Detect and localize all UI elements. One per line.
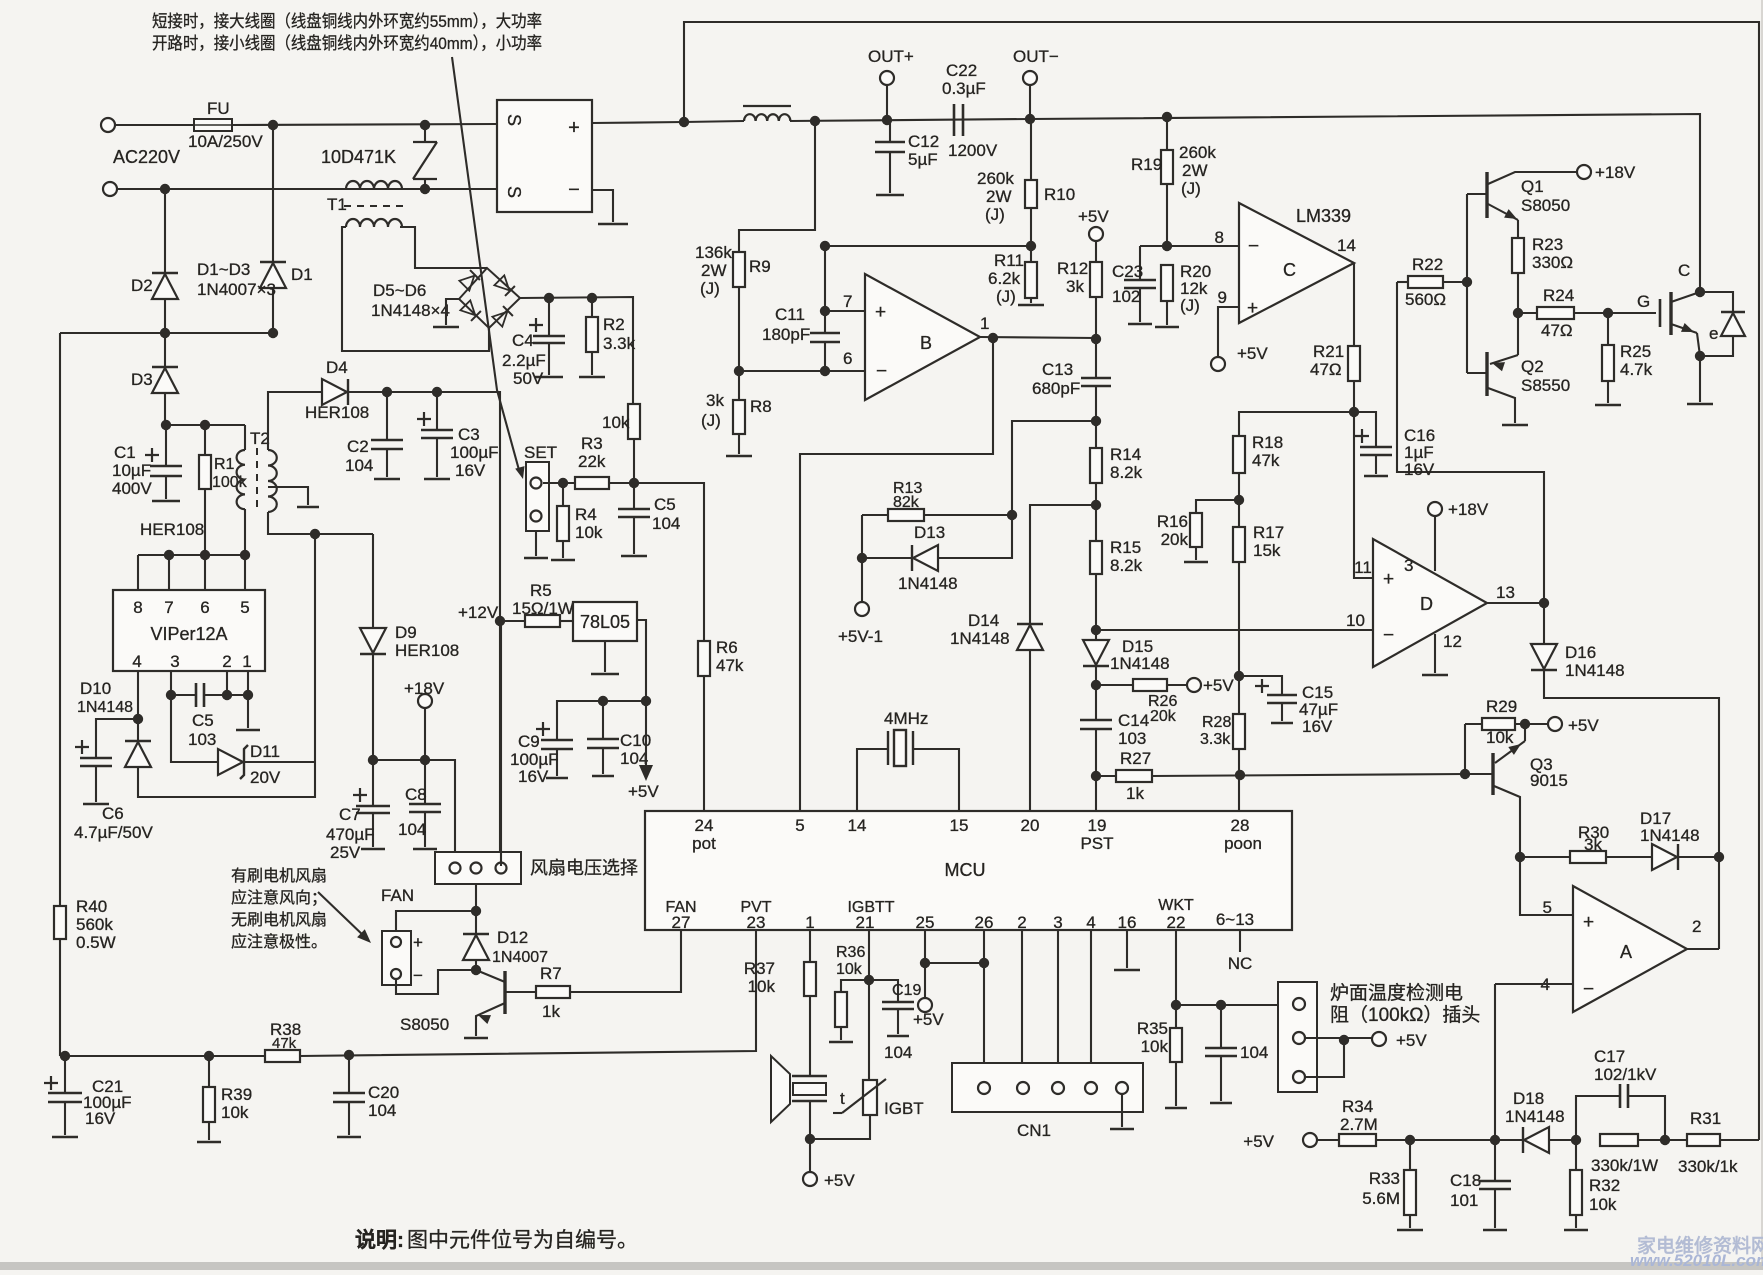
svg-text:+5V: +5V xyxy=(1078,207,1109,226)
svg-text:C20: C20 xyxy=(368,1083,399,1102)
svg-text:C8: C8 xyxy=(405,785,427,804)
svg-text:82k: 82k xyxy=(893,494,920,511)
wire xyxy=(500,621,502,866)
svg-text:开路时，接小线圈（线盘铜线内外环宽约40mm），小功率: 开路时，接小线圈（线盘铜线内外环宽约40mm），小功率 xyxy=(152,34,542,53)
wire viper top rail xyxy=(165,424,245,426)
svg-text:C5: C5 xyxy=(654,495,676,514)
svg-text:Q2: Q2 xyxy=(1521,357,1544,376)
wire xyxy=(164,393,166,425)
resistor xyxy=(1090,541,1102,574)
wire pin 6-13 NC stub xyxy=(1239,930,1241,952)
terminal xyxy=(450,863,461,874)
node C11 bottom xyxy=(820,366,830,376)
svg-text:S8050: S8050 xyxy=(400,1015,449,1034)
wire xyxy=(1238,676,1240,714)
svg-text:−: − xyxy=(1383,625,1394,646)
svg-text:D18: D18 xyxy=(1513,1089,1544,1108)
terminal xyxy=(391,937,401,947)
wire xyxy=(1494,1189,1496,1228)
svg-text:D3: D3 xyxy=(131,370,153,389)
wire xyxy=(1607,381,1609,403)
svg-text:C1: C1 xyxy=(114,443,136,462)
wire xyxy=(1524,724,1526,741)
wire xyxy=(925,962,984,964)
svg-text:R32: R32 xyxy=(1589,1176,1620,1195)
wire choke to OUT- node xyxy=(790,119,1030,121)
svg-text:10A/250V: 10A/250V xyxy=(188,132,263,151)
svg-text:330k/1k: 330k/1k xyxy=(1678,1157,1738,1176)
svg-text:S8050: S8050 xyxy=(1521,196,1570,215)
svg-text:2.2µF: 2.2µF xyxy=(502,351,546,370)
resistor xyxy=(203,1087,215,1122)
svg-text:D11: D11 xyxy=(250,742,280,761)
ground 104 xyxy=(1210,1102,1232,1105)
ground C19 xyxy=(887,1035,909,1038)
diode xyxy=(322,379,347,405)
svg-text:R23: R23 xyxy=(1532,235,1563,254)
node Q1Q2 base xyxy=(1462,277,1472,287)
svg-text:C17: C17 xyxy=(1594,1047,1625,1066)
diode xyxy=(360,628,386,653)
diode xyxy=(125,742,151,767)
wire xyxy=(1575,1215,1577,1228)
node C10 xyxy=(598,696,608,706)
wire xyxy=(204,694,248,696)
svg-text:+: + xyxy=(1247,298,1258,319)
wire xyxy=(204,425,206,455)
svg-text:7: 7 xyxy=(164,598,173,617)
svg-text:+: + xyxy=(1383,569,1394,590)
svg-text:180pF: 180pF xyxy=(762,325,810,344)
terminal xyxy=(1085,1082,1097,1094)
svg-text:3k: 3k xyxy=(1066,277,1084,296)
svg-text:7: 7 xyxy=(843,292,852,311)
wire xyxy=(64,1056,66,1093)
wire xyxy=(1095,666,1097,685)
svg-text:R36: R36 xyxy=(836,944,865,961)
wire temp bottom xyxy=(1305,1038,1344,1077)
wire xyxy=(1139,288,1141,322)
wire xyxy=(244,555,246,590)
capacitor xyxy=(409,804,441,812)
svg-text:R11: R11 xyxy=(994,251,1024,270)
thermistor diagonal xyxy=(842,1079,886,1113)
node R21 bottom xyxy=(1349,407,1359,417)
svg-text:R9: R9 xyxy=(749,257,771,276)
node C11 top xyxy=(820,306,830,316)
svg-text:14: 14 xyxy=(1337,236,1356,255)
diode D3 xyxy=(152,368,178,393)
wire D14 to MCU pin20 xyxy=(1029,650,1031,811)
node N-D2 xyxy=(160,184,170,194)
ground C5b xyxy=(621,555,647,558)
ground C23 xyxy=(1128,323,1152,326)
svg-text:10µF: 10µF xyxy=(112,461,151,480)
svg-text:S8550: S8550 xyxy=(1521,376,1570,395)
inductor winding xyxy=(237,450,245,509)
capacitor xyxy=(810,333,840,342)
svg-text:−: − xyxy=(413,966,423,985)
wire xyxy=(372,534,374,629)
wire xyxy=(1678,856,1719,858)
svg-text:LM339: LM339 xyxy=(1296,206,1351,226)
node C7 xyxy=(368,755,378,765)
ground R33 xyxy=(1397,1229,1423,1232)
svg-text:3: 3 xyxy=(1404,556,1413,575)
wire xyxy=(505,991,536,993)
svg-text:27: 27 xyxy=(672,913,691,932)
wire xyxy=(1720,1139,1759,1141)
svg-text:1N4148: 1N4148 xyxy=(1110,654,1170,673)
resistor R2 body xyxy=(586,317,598,352)
wire xyxy=(245,761,315,763)
wire xyxy=(1095,386,1097,421)
svg-text:20k: 20k xyxy=(1150,708,1177,725)
wire xyxy=(268,392,322,450)
svg-text:3: 3 xyxy=(170,652,179,671)
node OUT- xyxy=(1025,114,1035,124)
wire xyxy=(1544,670,1719,857)
transistor IGBT xyxy=(1659,299,1662,327)
svg-text:R15: R15 xyxy=(1110,538,1141,557)
wire xyxy=(424,760,426,804)
svg-text:1N4148: 1N4148 xyxy=(77,699,133,716)
svg-text:0.5W: 0.5W xyxy=(76,933,116,952)
svg-text:无刷电机风扇: 无刷电机风扇 xyxy=(231,911,327,929)
svg-text:IGBT: IGBT xyxy=(884,1099,924,1118)
svg-text:1N4148: 1N4148 xyxy=(898,574,958,593)
svg-text:FU: FU xyxy=(207,99,230,118)
+5V terminal buzzer xyxy=(803,1172,817,1186)
svg-text:C13: C13 xyxy=(1042,360,1073,379)
diode xyxy=(1524,1127,1549,1153)
resistor xyxy=(1025,262,1037,298)
svg-text:5: 5 xyxy=(795,816,804,835)
ground pin16 xyxy=(1114,969,1140,972)
node D17 right xyxy=(1714,852,1724,862)
resistor xyxy=(698,641,710,676)
svg-text:47k: 47k xyxy=(272,1035,297,1052)
wire xyxy=(868,980,870,1080)
terminal xyxy=(1303,1133,1317,1147)
svg-text:330k/1W: 330k/1W xyxy=(1591,1156,1658,1175)
wire xyxy=(1095,630,1097,641)
wire xyxy=(633,439,635,483)
node R19-R20 xyxy=(1162,241,1172,251)
filter choke core xyxy=(743,105,791,107)
ground CN1 xyxy=(1110,1128,1134,1131)
wire pin19 xyxy=(1095,776,1097,811)
wire xyxy=(924,963,926,998)
wire xyxy=(165,425,167,466)
wire xyxy=(1281,703,1283,721)
wire SET to R3 xyxy=(543,482,575,484)
svg-text:SET: SET xyxy=(524,443,557,462)
wire xyxy=(348,1055,350,1093)
svg-text:S: S xyxy=(504,186,524,198)
terminal xyxy=(1428,502,1442,516)
svg-text:5µF: 5µF xyxy=(908,150,938,169)
node pin1 xyxy=(243,690,253,700)
wire xyxy=(868,930,870,980)
wire xyxy=(548,298,550,335)
wire xyxy=(841,980,869,992)
wire xyxy=(645,701,647,765)
terminal xyxy=(531,511,542,522)
svg-text:C18: C18 xyxy=(1450,1171,1481,1190)
wire xyxy=(372,813,374,847)
svg-text:15k: 15k xyxy=(1253,541,1281,560)
resistor xyxy=(1090,262,1102,297)
svg-text:e: e xyxy=(1709,324,1718,343)
resistor xyxy=(1602,345,1614,381)
wire pin1 xyxy=(247,671,249,695)
wire 78L05 out xyxy=(637,620,646,701)
node +12V R5 xyxy=(495,616,505,626)
ground pin1 xyxy=(236,729,260,732)
wire T1 sec to bridge top xyxy=(400,227,487,268)
svg-text:5.6M: 5.6M xyxy=(1362,1189,1400,1208)
svg-text:1N4148: 1N4148 xyxy=(1640,826,1700,845)
wire xyxy=(738,287,740,371)
wire xyxy=(1095,421,1097,448)
wire xyxy=(1152,774,1465,776)
svg-text:50V: 50V xyxy=(513,369,544,388)
resistor xyxy=(1161,150,1173,184)
wire xyxy=(1095,241,1097,262)
wire xyxy=(1029,85,1031,119)
resistor R18 xyxy=(1233,436,1245,473)
svg-text:阻（100kΩ）插头: 阻（100kΩ）插头 xyxy=(1330,1004,1480,1026)
ground C15 xyxy=(1271,722,1293,725)
node R18-R17 xyxy=(1234,495,1244,505)
junction xyxy=(240,550,250,560)
wire xyxy=(95,766,97,802)
svg-text:8: 8 xyxy=(133,598,142,617)
wire bridge plus out xyxy=(592,122,684,123)
node R1 top xyxy=(200,420,210,430)
svg-text:C: C xyxy=(1678,261,1690,280)
svg-text:10k: 10k xyxy=(602,413,630,432)
wire xyxy=(1434,516,1436,571)
svg-text:4.7k: 4.7k xyxy=(1620,360,1653,379)
capacitor xyxy=(48,1093,82,1102)
svg-text:(J): (J) xyxy=(1180,296,1200,315)
svg-text:+5V: +5V xyxy=(1203,676,1234,695)
svg-text:R17: R17 xyxy=(1253,523,1284,542)
T1 core dashes xyxy=(344,205,406,207)
svg-text:6.2k: 6.2k xyxy=(988,269,1021,288)
svg-text:C22: C22 xyxy=(946,61,977,80)
wire xyxy=(809,1101,811,1139)
svg-text:炉面温度检测电: 炉面温度检测电 xyxy=(1330,982,1463,1004)
node R9-R8 xyxy=(734,366,744,376)
resistor R8 xyxy=(733,400,745,434)
wire xyxy=(372,760,374,806)
svg-text:10D471K: 10D471K xyxy=(321,147,396,167)
resistor xyxy=(1537,307,1574,319)
svg-text:23: 23 xyxy=(747,913,766,932)
wire xyxy=(1140,245,1239,247)
svg-text:1N4148×4: 1N4148×4 xyxy=(371,301,450,320)
node R2 xyxy=(587,293,597,303)
wire xyxy=(204,555,206,590)
wire xyxy=(1607,313,1609,345)
wire xyxy=(1576,1096,1620,1140)
wire xyxy=(137,555,139,590)
inductor xyxy=(346,219,402,227)
wire xyxy=(924,514,1012,516)
svg-text:短接时，接大线圈（线盘铜线内外环宽约55mm），大功率: 短接时，接大线圈（线盘铜线内外环宽约55mm），大功率 xyxy=(152,12,542,31)
wire xyxy=(475,960,477,970)
node Q3 base xyxy=(1460,769,1470,779)
svg-text:12: 12 xyxy=(1443,632,1462,651)
svg-text:1k: 1k xyxy=(1126,784,1144,803)
node pin2 xyxy=(222,690,232,700)
wire xyxy=(137,671,139,719)
svg-text:+5V: +5V xyxy=(913,1010,944,1029)
ground pin12 xyxy=(1422,674,1448,677)
svg-text:10k: 10k xyxy=(1141,1037,1169,1056)
wire xyxy=(1095,483,1097,541)
resistor xyxy=(1025,180,1037,208)
node D2-D3 xyxy=(160,328,170,338)
node pin25 xyxy=(920,958,930,968)
ground R16 xyxy=(1184,561,1208,564)
wire xyxy=(1096,684,1133,686)
svg-text:R7: R7 xyxy=(540,964,562,983)
svg-text:(J): (J) xyxy=(700,279,720,298)
wire xyxy=(560,620,573,622)
ground C1 xyxy=(152,500,180,503)
terminal xyxy=(978,1082,990,1094)
ground R8 xyxy=(726,455,752,458)
ground C18 xyxy=(1483,1229,1507,1232)
ground R4 xyxy=(551,559,575,562)
terminal xyxy=(1577,165,1591,179)
svg-text:1: 1 xyxy=(242,652,251,671)
svg-text:20: 20 xyxy=(1021,816,1040,835)
wire to filter choke xyxy=(684,121,744,122)
wire xyxy=(164,299,166,333)
wire xyxy=(924,930,926,963)
svg-text:3.3k: 3.3k xyxy=(603,334,636,353)
node 104 cap xyxy=(1216,1000,1226,1010)
ground C6 xyxy=(83,803,109,806)
node D out xyxy=(1539,598,1549,608)
wire CN1 pin5 gnd xyxy=(1121,1094,1123,1127)
svg-text:9015: 9015 xyxy=(1530,771,1568,790)
Q3 collector xyxy=(1494,786,1520,857)
svg-text:+: + xyxy=(568,117,580,139)
svg-text:104: 104 xyxy=(884,1043,912,1062)
wire xyxy=(1195,547,1197,560)
Q3 emitter xyxy=(1495,741,1525,763)
svg-text:4.7µF/50V: 4.7µF/50V xyxy=(74,823,153,842)
node OUT+ xyxy=(882,115,892,125)
wire to C6 xyxy=(96,719,138,758)
svg-text:应注意风向；: 应注意风向； xyxy=(231,888,327,907)
svg-text:10k: 10k xyxy=(1589,1195,1617,1214)
ground C16 xyxy=(1364,475,1388,478)
svg-text:R2: R2 xyxy=(603,315,625,334)
svg-text:+5V: +5V xyxy=(824,1171,855,1190)
wire xyxy=(137,719,139,741)
wire xyxy=(372,654,374,760)
svg-text:560k: 560k xyxy=(76,915,113,934)
wire xyxy=(889,152,891,193)
svg-text:+5V: +5V xyxy=(1243,1132,1274,1151)
capacitor xyxy=(80,758,112,766)
svg-text:103: 103 xyxy=(1118,729,1146,748)
resistor xyxy=(888,509,924,521)
svg-text:1N4007×3: 1N4007×3 xyxy=(197,280,276,299)
svg-text:2: 2 xyxy=(222,652,231,671)
capacitor xyxy=(150,466,182,476)
wire crystal to pin15 xyxy=(913,749,959,811)
resistor xyxy=(557,506,569,541)
wire xyxy=(809,996,811,1076)
svg-text:D9: D9 xyxy=(395,623,417,642)
resistor xyxy=(1570,1170,1582,1215)
wire xyxy=(1021,930,1023,1063)
ground bridge minus xyxy=(598,223,628,226)
wire xyxy=(1175,930,1177,1028)
svg-text:100k: 100k xyxy=(212,474,248,491)
node C20 xyxy=(344,1050,354,1060)
wire xyxy=(1697,333,1700,356)
wire xyxy=(824,311,826,333)
svg-text:104: 104 xyxy=(652,514,680,533)
wire xyxy=(348,1102,350,1135)
svg-text:D4: D4 xyxy=(326,358,348,377)
node R27 xyxy=(1091,771,1101,781)
svg-text:R16: R16 xyxy=(1157,512,1188,531)
wire xyxy=(475,911,477,934)
svg-text:10k: 10k xyxy=(836,961,863,978)
svg-text:2.7M: 2.7M xyxy=(1340,1115,1378,1134)
svg-text:680pF: 680pF xyxy=(1032,379,1080,398)
resistor xyxy=(835,992,847,1027)
wire xyxy=(1353,381,1355,412)
ground R20 xyxy=(1155,326,1179,329)
wire xyxy=(1409,1140,1411,1170)
fuse FU xyxy=(194,119,232,131)
svg-text:+5V: +5V xyxy=(1396,1031,1427,1050)
wire xyxy=(1466,194,1468,373)
transistor Q3 9015 xyxy=(1491,753,1494,795)
svg-text:R19: R19 xyxy=(1131,155,1162,174)
svg-text:3k: 3k xyxy=(1584,835,1602,854)
wire xyxy=(840,1027,842,1040)
terminal xyxy=(1293,1032,1305,1044)
wire xyxy=(1238,500,1240,527)
svg-text:−: − xyxy=(568,179,580,201)
node buzzer +5V xyxy=(805,1134,815,1144)
svg-text:260k: 260k xyxy=(977,169,1014,188)
diode D2 xyxy=(152,274,178,299)
ground R36 xyxy=(829,1041,853,1044)
svg-text:102: 102 xyxy=(1112,287,1140,306)
wire xyxy=(983,930,985,963)
node +5V out xyxy=(641,696,651,706)
svg-text:CN1: CN1 xyxy=(1017,1121,1051,1140)
node R36-C19 xyxy=(864,975,874,985)
annotation arrow xyxy=(318,892,366,938)
resistor xyxy=(1190,513,1202,547)
wire xyxy=(738,371,740,400)
svg-text:22k: 22k xyxy=(578,452,606,471)
